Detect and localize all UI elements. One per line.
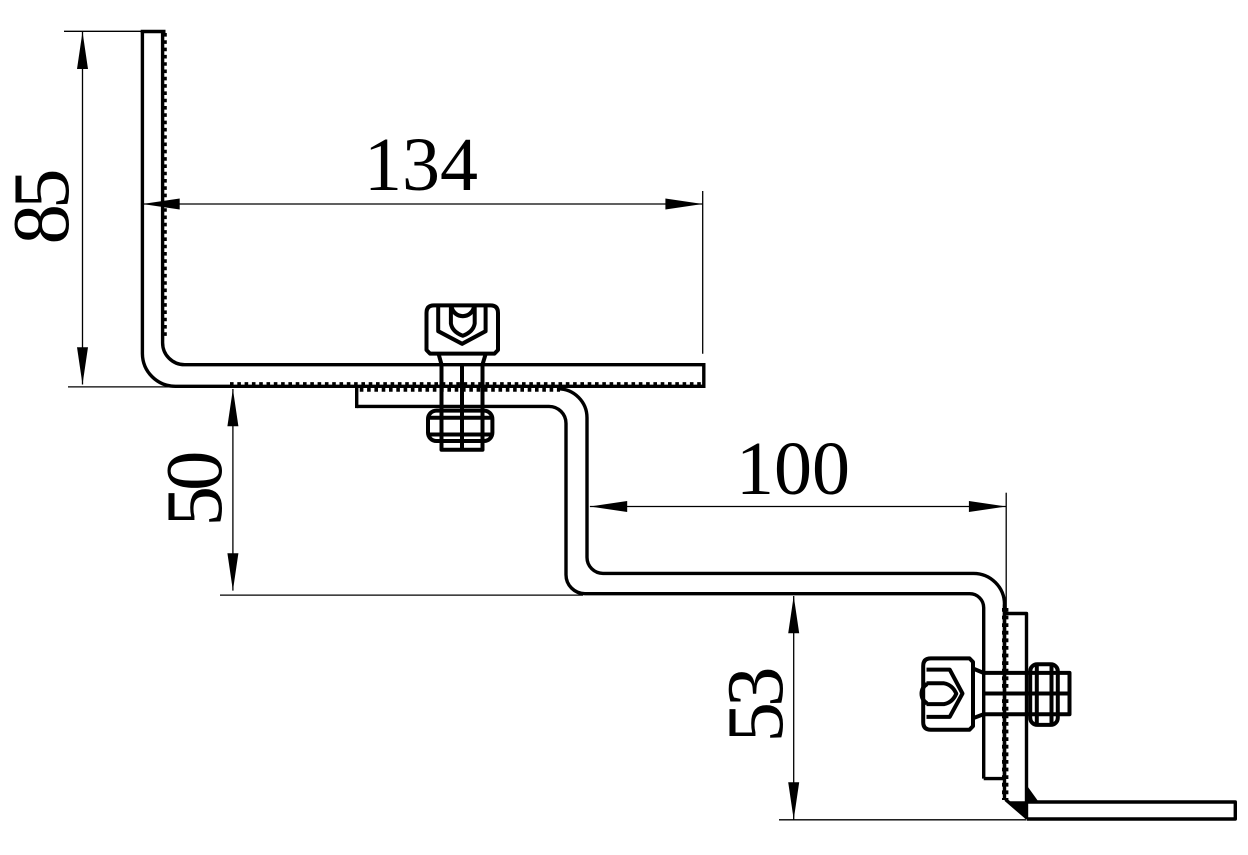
arrow 85 bottom [77, 347, 88, 384]
bolt2 hex silhouette [927, 670, 963, 717]
part3 base L vertical leg [1005, 614, 1027, 819]
dim 134 line [142, 203, 702, 205]
serration: part1 leg bottom edge [230, 382, 703, 388]
dim 134 right extension [702, 191, 704, 354]
part1 top L-bracket outer contour [142, 32, 703, 387]
part3 bottom flange [1027, 802, 1236, 819]
bolt1 nut [428, 411, 492, 441]
dim 50 bottom extension [220, 594, 583, 596]
bolt2 nut chamfer lines [1037, 664, 1052, 725]
svg-text:134: 134 [364, 123, 478, 207]
bolt1 socket top arc [452, 307, 475, 316]
part2 Z-bracket lower contour [357, 406, 984, 778]
dimension texts [0, 123, 850, 743]
dim 85 extension top [64, 30, 143, 32]
bolt2 socket left arc [922, 684, 927, 704]
bolt2 neck [973, 669, 984, 719]
arrow 100 right [969, 501, 1006, 512]
bolt1 hex silhouette [438, 306, 485, 344]
part3 left serrated edge line [1003, 604, 1006, 799]
dim 50 line [232, 389, 234, 591]
part2 lower end edge [984, 777, 1005, 780]
dim 85/50 extension at y=386.9 [68, 386, 230, 388]
arrow 50 top [227, 389, 238, 426]
part2 Z-bracket upper contour [558, 389, 1005, 779]
dim 100 line [590, 506, 1006, 508]
arrow 50 bottom [227, 553, 238, 590]
serrations [164, 33, 1005, 800]
serration: part2 top flange upper edge (interleaved row) [360, 386, 560, 392]
bolt1 head [427, 305, 499, 353]
svg-text:50: 50 [149, 453, 239, 527]
bolt2 socket [927, 683, 957, 704]
bolt1 socket [451, 306, 475, 336]
dim 85 line [82, 32, 84, 385]
bolt2 shank [984, 673, 1070, 714]
bolt1 nut chamfer lines [428, 418, 492, 435]
part3 bend chamfer diagonal [1006, 800, 1028, 819]
dim 53 bottom extension [779, 819, 1026, 821]
part3 bend fill triangles [1006, 786, 1038, 820]
part1 leg right end [702, 363, 705, 388]
serration: part1 flange inner edge [161, 33, 167, 338]
part1 flange top edge [141, 30, 166, 33]
svg-text:85: 85 [0, 171, 86, 245]
bolt1 shank [442, 365, 483, 450]
svg-text:53: 53 [710, 669, 800, 743]
arrow 53 bottom [788, 782, 799, 819]
bolt2 nut [1030, 664, 1058, 725]
arrow 100 left [590, 501, 627, 512]
arrow 85 top [77, 32, 88, 69]
bolt2 head [923, 658, 973, 729]
dim 53 line [793, 596, 795, 820]
part2 left end edge [355, 387, 358, 408]
part1 inner contour [163, 32, 704, 365]
arrow 134 right [665, 199, 702, 210]
svg-text:100: 100 [736, 427, 850, 511]
dim 100 right extension [1005, 493, 1007, 615]
arrowheads [77, 32, 1006, 820]
serration: right joint vertical [1002, 608, 1008, 800]
bolt1 neck [439, 354, 486, 365]
arrow 134 left [142, 199, 179, 210]
arrow 53 top [788, 596, 799, 633]
